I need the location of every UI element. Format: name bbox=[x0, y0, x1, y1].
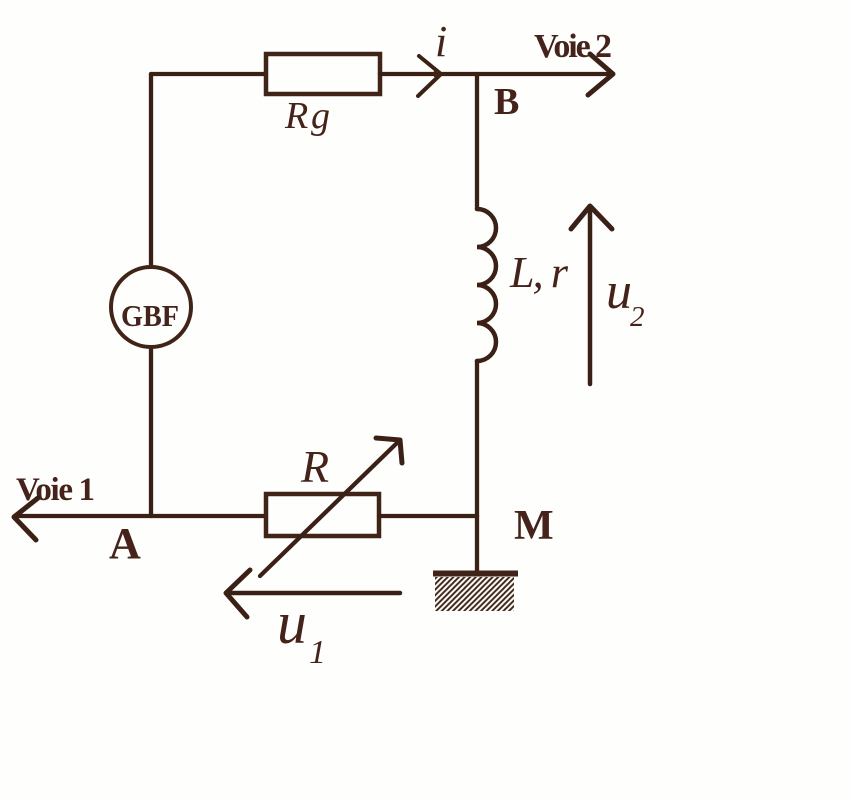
svg-text:Rg: Rg bbox=[284, 95, 330, 137]
Voie 1 arrowhead bbox=[14, 498, 38, 540]
svg-text:1: 1 bbox=[309, 634, 326, 671]
node M label bbox=[514, 503, 554, 549]
resistor Rg bbox=[266, 54, 380, 94]
svg-text:Voie 2: Voie 2 bbox=[534, 28, 612, 65]
wire bottom-left horizontal (Voie1 arrow to R) bbox=[15, 514, 266, 518]
svg-text:Voie 1: Voie 1 bbox=[16, 472, 95, 508]
wire bottom horizontal (R to node M) bbox=[379, 514, 477, 518]
wire node M to ground bbox=[475, 516, 479, 572]
current arrow i (chevron on top wire) bbox=[418, 56, 441, 96]
svg-text:M: M bbox=[514, 503, 554, 549]
label Voie 2 bbox=[534, 28, 612, 65]
voltage arrow u2 bbox=[571, 206, 612, 384]
svg-text:L, r: L, r bbox=[509, 248, 569, 297]
svg-text:A: A bbox=[109, 519, 141, 568]
svg-text:u: u bbox=[277, 590, 307, 656]
svg-text:u: u bbox=[606, 263, 632, 320]
wire left vertical upper (top wire to GBF) bbox=[149, 74, 153, 267]
variable resistor diagonal arrow bbox=[260, 438, 402, 576]
svg-text:i: i bbox=[435, 17, 447, 66]
voltage arrow u1 bbox=[226, 570, 400, 617]
resistor R (variable) bbox=[266, 494, 379, 536]
wire top-right horizontal (Rg to Voie 2 arrow) bbox=[380, 72, 608, 76]
wire top-left horizontal (node to Rg) bbox=[151, 72, 266, 76]
inductor L,r (coil) bbox=[477, 209, 496, 361]
wire vertical inductor to node M bbox=[475, 361, 479, 516]
wire left vertical lower (GBF to node A) bbox=[149, 347, 153, 516]
label R bbox=[300, 441, 329, 492]
label u1 bbox=[277, 590, 326, 671]
label Rg bbox=[284, 95, 330, 137]
label i bbox=[435, 17, 447, 66]
svg-text:B: B bbox=[494, 81, 519, 123]
svg-text:R: R bbox=[300, 441, 329, 492]
GBF generator bbox=[111, 267, 191, 347]
Voie 2 arrowhead bbox=[588, 54, 613, 95]
ground bbox=[433, 574, 518, 612]
node B label bbox=[494, 81, 519, 123]
label L, r bbox=[509, 248, 569, 297]
node A label bbox=[109, 519, 141, 568]
label Voie 1 bbox=[16, 472, 95, 508]
wire vertical B to inductor bbox=[475, 74, 479, 209]
svg-text:GBF: GBF bbox=[121, 298, 179, 333]
svg-text:2: 2 bbox=[630, 301, 645, 333]
label u2 bbox=[606, 263, 645, 333]
